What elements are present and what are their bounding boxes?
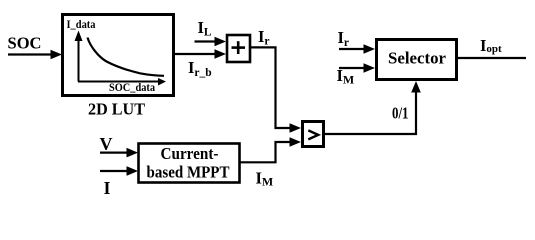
svg-text:I_data: I_data xyxy=(67,19,96,31)
svg-text:2D LUT: 2D LUT xyxy=(88,100,146,119)
svg-text:SOC: SOC xyxy=(8,34,42,53)
svg-text:Selector: Selector xyxy=(388,48,446,67)
svg-text:0/1: 0/1 xyxy=(392,104,409,123)
svg-text:based MPPT: based MPPT xyxy=(147,163,230,182)
svg-text:SOC_data: SOC_data xyxy=(109,82,155,94)
svg-text:V: V xyxy=(100,134,113,154)
svg-text:Current-: Current- xyxy=(161,144,219,163)
svg-text:I: I xyxy=(104,178,111,198)
